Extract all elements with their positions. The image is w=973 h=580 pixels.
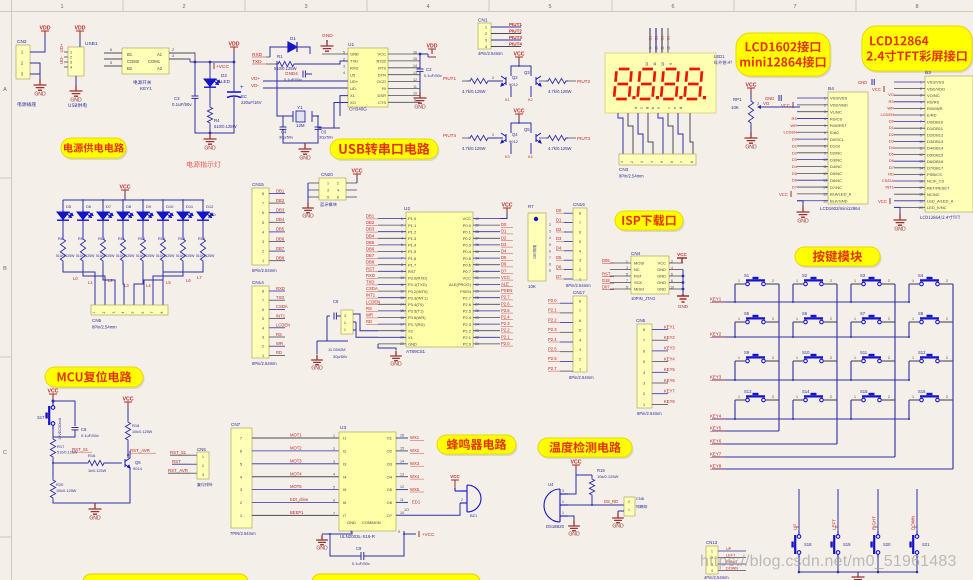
svg-text:1: 1: [854, 279, 856, 283]
svg-text:1: 1: [92, 311, 96, 313]
capacitor C4 30p/50v: [282, 116, 284, 127]
wire bottom rail to GND: [195, 98, 234, 133]
svg-text:3: 3: [262, 336, 264, 340]
svg-text:510/0.125W: 510/0.125W: [96, 254, 115, 258]
wire EC branch: [233, 62, 235, 88]
wire U2 pin 36 net D3: [473, 244, 500, 246]
svg-text:LED: LED: [208, 212, 216, 217]
svg-text:UP: UP: [726, 547, 732, 551]
svg-text:CN7: CN7: [231, 422, 241, 427]
svg-text:S4: S4: [918, 273, 924, 278]
svg-text:P2.2: P2.2: [548, 317, 557, 322]
wire U2 pin 34 net D5: [473, 257, 500, 259]
svg-text:A: A: [3, 87, 7, 93]
svg-text:WR: WR: [790, 123, 797, 128]
wire row KEY2: [712, 336, 909, 338]
svg-text:6: 6: [262, 211, 264, 215]
svg-text:GND: GND: [745, 145, 757, 151]
svg-text:12: 12: [645, 62, 649, 66]
ground (B4): [797, 206, 810, 217]
svg-text:2: 2: [772, 356, 774, 360]
svg-text:1k/0.125W: 1k/0.125W: [88, 469, 107, 473]
svg-text:8: 8: [579, 300, 581, 304]
wire U2 pin 22 net P2.1: [473, 336, 500, 338]
resistor R14 510/0.125W: [182, 221, 184, 237]
wire Q6 collector/emitter: [127, 442, 129, 458]
ground (DS18B20): [568, 521, 580, 531]
svg-text:6: 6: [337, 196, 339, 200]
svg-text:KEY1: KEY1: [664, 324, 675, 329]
svg-text:4: 4: [549, 236, 551, 240]
svg-text:2: 2: [579, 358, 581, 362]
svg-text:P2.3: P2.3: [463, 322, 472, 327]
svg-text:MOSI: MOSI: [634, 261, 644, 266]
svg-text:GND: GND: [657, 267, 666, 272]
svg-text:INT1: INT1: [885, 185, 894, 190]
svg-text:RS/CS: RS/CS: [830, 116, 843, 121]
svg-text:VCC: VCC: [781, 103, 790, 108]
LED D12: [202, 200, 204, 210]
svg-text:X1: X1: [408, 335, 414, 340]
svg-text:2: 2: [262, 250, 264, 254]
svg-text:Y1: Y1: [297, 105, 303, 110]
svg-text:8Pin/2.54mm: 8Pin/2.54mm: [252, 361, 277, 366]
wire DS18B20 pin2 data: [568, 504, 624, 506]
net label PIUT3: [568, 137, 576, 139]
svg-text:COMMON: COMMON: [362, 520, 381, 525]
svg-text:DB7: DB7: [366, 253, 375, 258]
svg-text:GND: GND: [322, 33, 333, 39]
svg-text:D5: D5: [66, 204, 72, 209]
svg-text:WX2: WX2: [410, 448, 420, 453]
svg-text:16: 16: [413, 50, 417, 54]
svg-text:VCC: VCC: [450, 474, 460, 479]
svg-text:2: 2: [202, 464, 204, 468]
svg-text:GND: GND: [204, 146, 216, 152]
svg-text:R18: R18: [132, 423, 140, 428]
svg-text:10K: 10K: [731, 105, 739, 110]
svg-text:PIUT4: PIUT4: [443, 133, 456, 138]
svg-text:5: 5: [824, 124, 826, 128]
transistor Q6 9014: [106, 462, 122, 464]
svg-text:1: 1: [628, 508, 630, 512]
svg-text:0.1uF/50v: 0.1uF/50v: [352, 561, 370, 566]
svg-text:8: 8: [160, 311, 164, 313]
svg-text:KEY1: KEY1: [710, 297, 722, 302]
wire B3 pin20 to GND: [894, 207, 900, 215]
svg-text:6: 6: [579, 231, 581, 235]
svg-text:19: 19: [919, 199, 923, 203]
svg-text:VCC: VCC: [463, 276, 472, 281]
svg-text:14: 14: [413, 64, 417, 68]
svg-text:P3.0(RXD): P3.0(RXD): [408, 276, 428, 281]
svg-text:P1.2: P1.2: [408, 229, 417, 234]
svg-text:7: 7: [549, 256, 551, 260]
svg-text:VO/NC: VO/NC: [927, 93, 940, 98]
wire U2 pin 9 net RST: [378, 270, 406, 272]
wire CN7 pin 7 net MOT1: [252, 437, 339, 439]
svg-text:VCC: VCC: [677, 252, 687, 257]
svg-text:P2.0: P2.0: [501, 341, 510, 346]
svg-text:RD: RD: [888, 171, 894, 176]
svg-text:GND: GND: [89, 516, 101, 522]
svg-text:30p/50v: 30p/50v: [319, 135, 333, 140]
svg-text:GND: GND: [408, 342, 417, 347]
svg-text:P3.7(RD): P3.7(RD): [408, 322, 425, 327]
svg-text:4: 4: [337, 189, 339, 193]
svg-text:3: 3: [304, 4, 307, 10]
svg-text:1: 1: [738, 279, 740, 283]
svg-text:CN2: CN2: [17, 39, 27, 45]
svg-text:DB3: DB3: [276, 208, 285, 213]
svg-text:D2: D2: [889, 132, 895, 137]
switch S12: [909, 354, 953, 363]
svg-text:S2: S2: [802, 273, 808, 278]
wire row KEY3: [712, 379, 909, 381]
svg-text:PIUT1: PIUT1: [443, 76, 456, 81]
wires LED array to CN5: [63, 263, 95, 305]
wire U2 pin 25 net P2.4: [473, 317, 500, 319]
wire U1 right pins: [388, 53, 420, 55]
wire CN20 to GND: [307, 183, 309, 203]
svg-text:S17: S17: [37, 415, 45, 420]
svg-text:D5: D5: [792, 171, 798, 176]
LED D7: [102, 200, 104, 210]
wire U2 pin 12 net CSDA: [378, 290, 406, 292]
svg-text:2: 2: [830, 317, 832, 321]
svg-text:1: 1: [854, 317, 856, 321]
svg-text:5: 5: [549, 243, 551, 247]
svg-text:7: 7: [680, 161, 684, 163]
svg-text:14: 14: [919, 166, 923, 170]
svg-text:5: 5: [920, 107, 922, 111]
svg-text:RI: RI: [382, 86, 386, 91]
svg-text:2: 2: [628, 500, 630, 504]
svg-text:11: 11: [413, 85, 417, 89]
wire CN8 pin1 to GND: [618, 510, 624, 512]
svg-text:3: 3: [70, 61, 72, 65]
callout pill: power supply circuit: [61, 138, 128, 160]
svg-text:4: 4: [333, 473, 335, 477]
wire U2 pin 35 net D4: [473, 251, 500, 253]
svg-text:3: 3: [333, 460, 335, 464]
svg-text:MISO: MISO: [634, 287, 644, 292]
wires above 7-seg display: [649, 28, 651, 55]
svg-text:P0.4: P0.4: [463, 249, 472, 254]
svg-text:B: B: [3, 266, 7, 272]
svg-text:3: 3: [344, 314, 346, 318]
svg-text:3: 3: [824, 110, 826, 114]
svg-text:PIUT3: PIUT3: [509, 35, 522, 40]
resistor R8 510/0.125W: [62, 221, 64, 237]
svg-text:2: 2: [102, 311, 106, 313]
svg-text:DB3: DB3: [366, 227, 375, 232]
svg-text:9012: 9012: [509, 139, 519, 144]
resistor R13 510/0.125W: [162, 221, 164, 237]
switch S20: [877, 489, 879, 531]
svg-text:P3.4(T0): P3.4(T0): [408, 302, 424, 307]
svg-text:RTS: RTS: [378, 65, 386, 70]
svg-text:RST: RST: [634, 274, 643, 279]
svg-text:D4: D4: [556, 246, 562, 251]
svg-text:2: 2: [549, 223, 551, 227]
wire U2 pin 26 net P2.5: [473, 310, 500, 312]
svg-text:R7: R7: [528, 204, 534, 209]
svg-text:P2.7: P2.7: [501, 295, 510, 300]
svg-text:VDD/VDD: VDD/VDD: [927, 86, 945, 91]
svg-text:4: 4: [920, 100, 922, 104]
svg-text:D3: D3: [556, 236, 562, 241]
svg-text:D3: D3: [889, 138, 895, 143]
ground power indicator: [204, 133, 217, 144]
svg-text:S3: S3: [860, 273, 866, 278]
svg-text:DS_RD: DS_RD: [604, 499, 618, 504]
svg-text:CTS: CTS: [378, 100, 386, 105]
ground (C2): [414, 92, 427, 103]
resistor R17 510/0.125W: [50, 437, 55, 459]
svg-text:3: 3: [262, 240, 264, 244]
svg-text:1: 1: [920, 81, 922, 85]
svg-text:ALE: ALE: [501, 282, 509, 287]
7-seg digit 1: [614, 69, 638, 99]
svg-text:4.7k/0.125W: 4.7k/0.125W: [462, 146, 486, 151]
switch S14: [793, 393, 837, 402]
connector CN8: [624, 497, 635, 516]
svg-text:P2.2: P2.2: [501, 328, 510, 333]
svg-text:RXD: RXD: [366, 273, 375, 278]
svg-text:13: 13: [413, 71, 417, 75]
svg-text:LCDEN: LCDEN: [880, 112, 894, 117]
svg-text:10PIN_JTAG: 10PIN_JTAG: [631, 296, 655, 301]
svg-text:D3/NC: D3/NC: [830, 157, 842, 162]
svg-text:D1/SI: D1/SI: [830, 144, 840, 149]
svg-text:B3: B3: [925, 70, 931, 76]
callout pill: MCU reset circuit: [45, 367, 145, 389]
resistor R2 4.7k/0.125W: [462, 80, 468, 82]
svg-text:KEY8: KEY8: [664, 399, 675, 404]
svg-text:C8: C8: [333, 299, 339, 304]
svg-text:7: 7: [150, 311, 154, 313]
svg-text:D7/DB17: D7/DB17: [927, 166, 944, 171]
capacitor EC 220uF/16V electrolytic: [227, 92, 241, 98]
svg-text:6: 6: [262, 308, 264, 312]
svg-text:PSB/CS: PSB/CS: [927, 172, 942, 177]
svg-text:S20: S20: [883, 542, 891, 547]
switch S3: [851, 277, 895, 286]
svg-text:220uF/16V: 220uF/16V: [241, 100, 262, 105]
svg-text:RIGHT: RIGHT: [872, 516, 877, 530]
wire USB1 shell to GND: [75, 76, 77, 86]
svg-text:O1: O1: [387, 436, 393, 441]
svg-text:KEY5: KEY5: [664, 367, 675, 372]
svg-text:P1.0: P1.0: [408, 216, 417, 221]
svg-text:P1.7: P1.7: [408, 262, 417, 267]
svg-text:GND: GND: [797, 219, 809, 225]
svg-text:L6: L6: [186, 278, 191, 283]
svg-text:BEEP1: BEEP1: [290, 510, 304, 515]
svg-text:S5: S5: [744, 311, 750, 316]
svg-text:C2: C2: [426, 67, 432, 72]
svg-text:S13: S13: [744, 389, 752, 394]
svg-text:GND: GND: [657, 280, 666, 285]
svg-text:S12: S12: [918, 350, 926, 355]
svg-text:S9: S9: [744, 350, 750, 355]
svg-text:D07: D07: [602, 285, 610, 290]
svg-text:D7/NC: D7/NC: [830, 185, 842, 190]
svg-text:D5/DB15: D5/DB15: [927, 152, 944, 157]
wire column 3: [894, 284, 896, 457]
svg-text:B2: B2: [127, 66, 133, 71]
svg-text:KEY3: KEY3: [710, 375, 722, 380]
svg-text:12: 12: [413, 78, 417, 82]
svg-text:10k/0.125W: 10k/0.125W: [56, 489, 77, 493]
svg-text:7: 7: [262, 299, 264, 303]
svg-text:D0/DB10: D0/DB10: [927, 119, 944, 124]
svg-text:2: 2: [772, 279, 774, 283]
svg-text:USB1: USB1: [85, 41, 98, 47]
svg-text:CN5: CN5: [197, 447, 206, 452]
svg-text:K1: K1: [505, 98, 510, 102]
svg-text:GND: GND: [858, 80, 867, 85]
wire S21 to common: [916, 558, 918, 572]
svg-text:D2: D2: [221, 73, 227, 78]
svg-text:RST_51: RST_51: [170, 450, 187, 455]
ground CN2: [34, 79, 47, 90]
svg-text:8: 8: [824, 144, 826, 148]
ground (CN20): [302, 203, 314, 213]
capacitor C6 0.1uF/50v: [53, 401, 75, 426]
wire S19 to common: [837, 558, 839, 572]
svg-text:TXD: TXD: [276, 295, 284, 300]
svg-text:P2.5: P2.5: [463, 309, 472, 314]
svg-text:B1: B1: [127, 52, 133, 57]
svg-text:TXD: TXD: [350, 59, 358, 64]
svg-text:DB5: DB5: [276, 227, 285, 232]
svg-text:DOWN: DOWN: [911, 516, 916, 530]
crystal circuit X1/X2: [360, 316, 378, 331]
svg-text:D6: D6: [792, 178, 798, 183]
svg-text:5: 5: [131, 311, 135, 313]
svg-text:510/0.125W: 510/0.125W: [76, 254, 95, 258]
svg-text:D4: D4: [501, 249, 507, 254]
svg-text:1: 1: [70, 51, 72, 55]
svg-text:LED_A/LED_A: LED_A/LED_A: [927, 199, 954, 204]
ground (U3): [316, 535, 328, 545]
svg-text:d: d: [633, 107, 638, 109]
LED D9: [142, 200, 144, 210]
svg-text:B4: B4: [828, 86, 834, 92]
svg-text:1: 1: [579, 367, 581, 371]
svg-text:7: 7: [793, 4, 796, 10]
svg-text:8Pin/2.54mm: 8Pin/2.54mm: [637, 411, 662, 416]
wire S20 to common: [877, 558, 879, 572]
svg-text:1: 1: [60, 4, 63, 10]
svg-text:8Pin/2.54mm: 8Pin/2.54mm: [252, 268, 277, 273]
svg-text:0.1uF/50v: 0.1uF/50v: [172, 102, 192, 107]
wire VCC to U1 pin16: [420, 53, 428, 55]
svg-text:D6/NC: D6/NC: [830, 178, 842, 183]
svg-text:COM2: COM2: [127, 59, 140, 64]
svg-text:R232: R232: [376, 59, 386, 64]
callout pill: USB to serial circuit: [330, 139, 440, 161]
svg-text:8: 8: [920, 127, 922, 131]
svg-text:PSEN: PSEN: [501, 288, 512, 293]
svg-text:P2.2: P2.2: [463, 328, 472, 333]
resistor R19 10k/0.125W: [575, 470, 577, 475]
wire U1 left pins: [322, 53, 348, 55]
svg-text:6: 6: [549, 249, 551, 253]
svg-text:2: 2: [333, 447, 335, 451]
svg-text:P1.6: P1.6: [408, 256, 417, 261]
switch S8: [909, 315, 953, 324]
wire caps to GND: [283, 129, 305, 143]
svg-text:KEY8: KEY8: [710, 464, 722, 469]
svg-text:KEY7: KEY7: [710, 452, 722, 457]
svg-text:GND: GND: [894, 227, 906, 233]
svg-text:5: 5: [548, 4, 551, 10]
svg-text:RST: RST: [408, 269, 417, 274]
svg-text:ED1: ED1: [412, 500, 421, 505]
svg-text:UD+: UD+: [59, 43, 64, 52]
wire U2 pin 16 net WR: [378, 317, 406, 319]
svg-text:P3.5(T1): P3.5(T1): [408, 309, 424, 314]
svg-text:9: 9: [549, 269, 551, 273]
svg-text:U1: U1: [348, 42, 354, 48]
svg-text:P0.6: P0.6: [463, 262, 472, 267]
svg-text:R17: R17: [57, 444, 65, 449]
svg-text:GND: GND: [316, 545, 328, 551]
svg-text:2: 2: [824, 103, 826, 107]
svg-text:510/0.125W: 510/0.125W: [214, 124, 237, 129]
svg-text:8: 8: [549, 263, 551, 267]
svg-text:10K: 10K: [528, 284, 536, 289]
svg-text:D0: D0: [792, 137, 798, 142]
svg-text:UD-: UD-: [350, 86, 358, 91]
svg-text:D9: D9: [146, 204, 152, 209]
svg-text:3: 3: [920, 94, 922, 98]
svg-text:D18: D18: [602, 278, 610, 283]
svg-text:9014: 9014: [133, 466, 143, 471]
svg-text:D1: D1: [792, 143, 798, 148]
svg-text:12: 12: [919, 153, 923, 157]
svg-text:GND: GND: [657, 274, 666, 279]
svg-text:P3.6(WR): P3.6(WR): [408, 315, 426, 320]
wire DS18B20 pin1 to GND: [568, 516, 574, 521]
wire U2 pin 19 net X1: [378, 336, 406, 338]
svg-text:GND: GND: [678, 304, 689, 309]
svg-text:D4: D4: [792, 164, 798, 169]
svg-text:P0.1: P0.1: [463, 229, 472, 234]
svg-text:S1: S1: [655, 36, 659, 41]
svg-text:5: 5: [579, 240, 581, 244]
svg-text:RST_51: RST_51: [72, 447, 89, 452]
callout pill: LCD12864 / 2.4 TFT interface: [862, 26, 973, 73]
wire U3 O5 net WX5: [396, 489, 408, 491]
svg-text:U5: U5: [350, 72, 356, 77]
wire CN2 pin1 to VDD: [30, 36, 45, 52]
svg-text:P2.5: P2.5: [548, 347, 557, 352]
svg-text:9: 9: [669, 63, 673, 65]
svg-text:5: 5: [110, 61, 112, 65]
svg-text:WR: WR: [887, 105, 894, 110]
svg-text:CH340G: CH340G: [349, 107, 367, 112]
svg-text:DS18B20: DS18B20: [546, 524, 565, 529]
svg-text:2: 2: [172, 48, 174, 52]
ground (reset): [89, 503, 102, 514]
svg-text:MOT2: MOT2: [290, 446, 302, 451]
svg-text:P0.2: P0.2: [463, 236, 472, 241]
svg-text:RS/RS: RS/RS: [927, 100, 940, 105]
